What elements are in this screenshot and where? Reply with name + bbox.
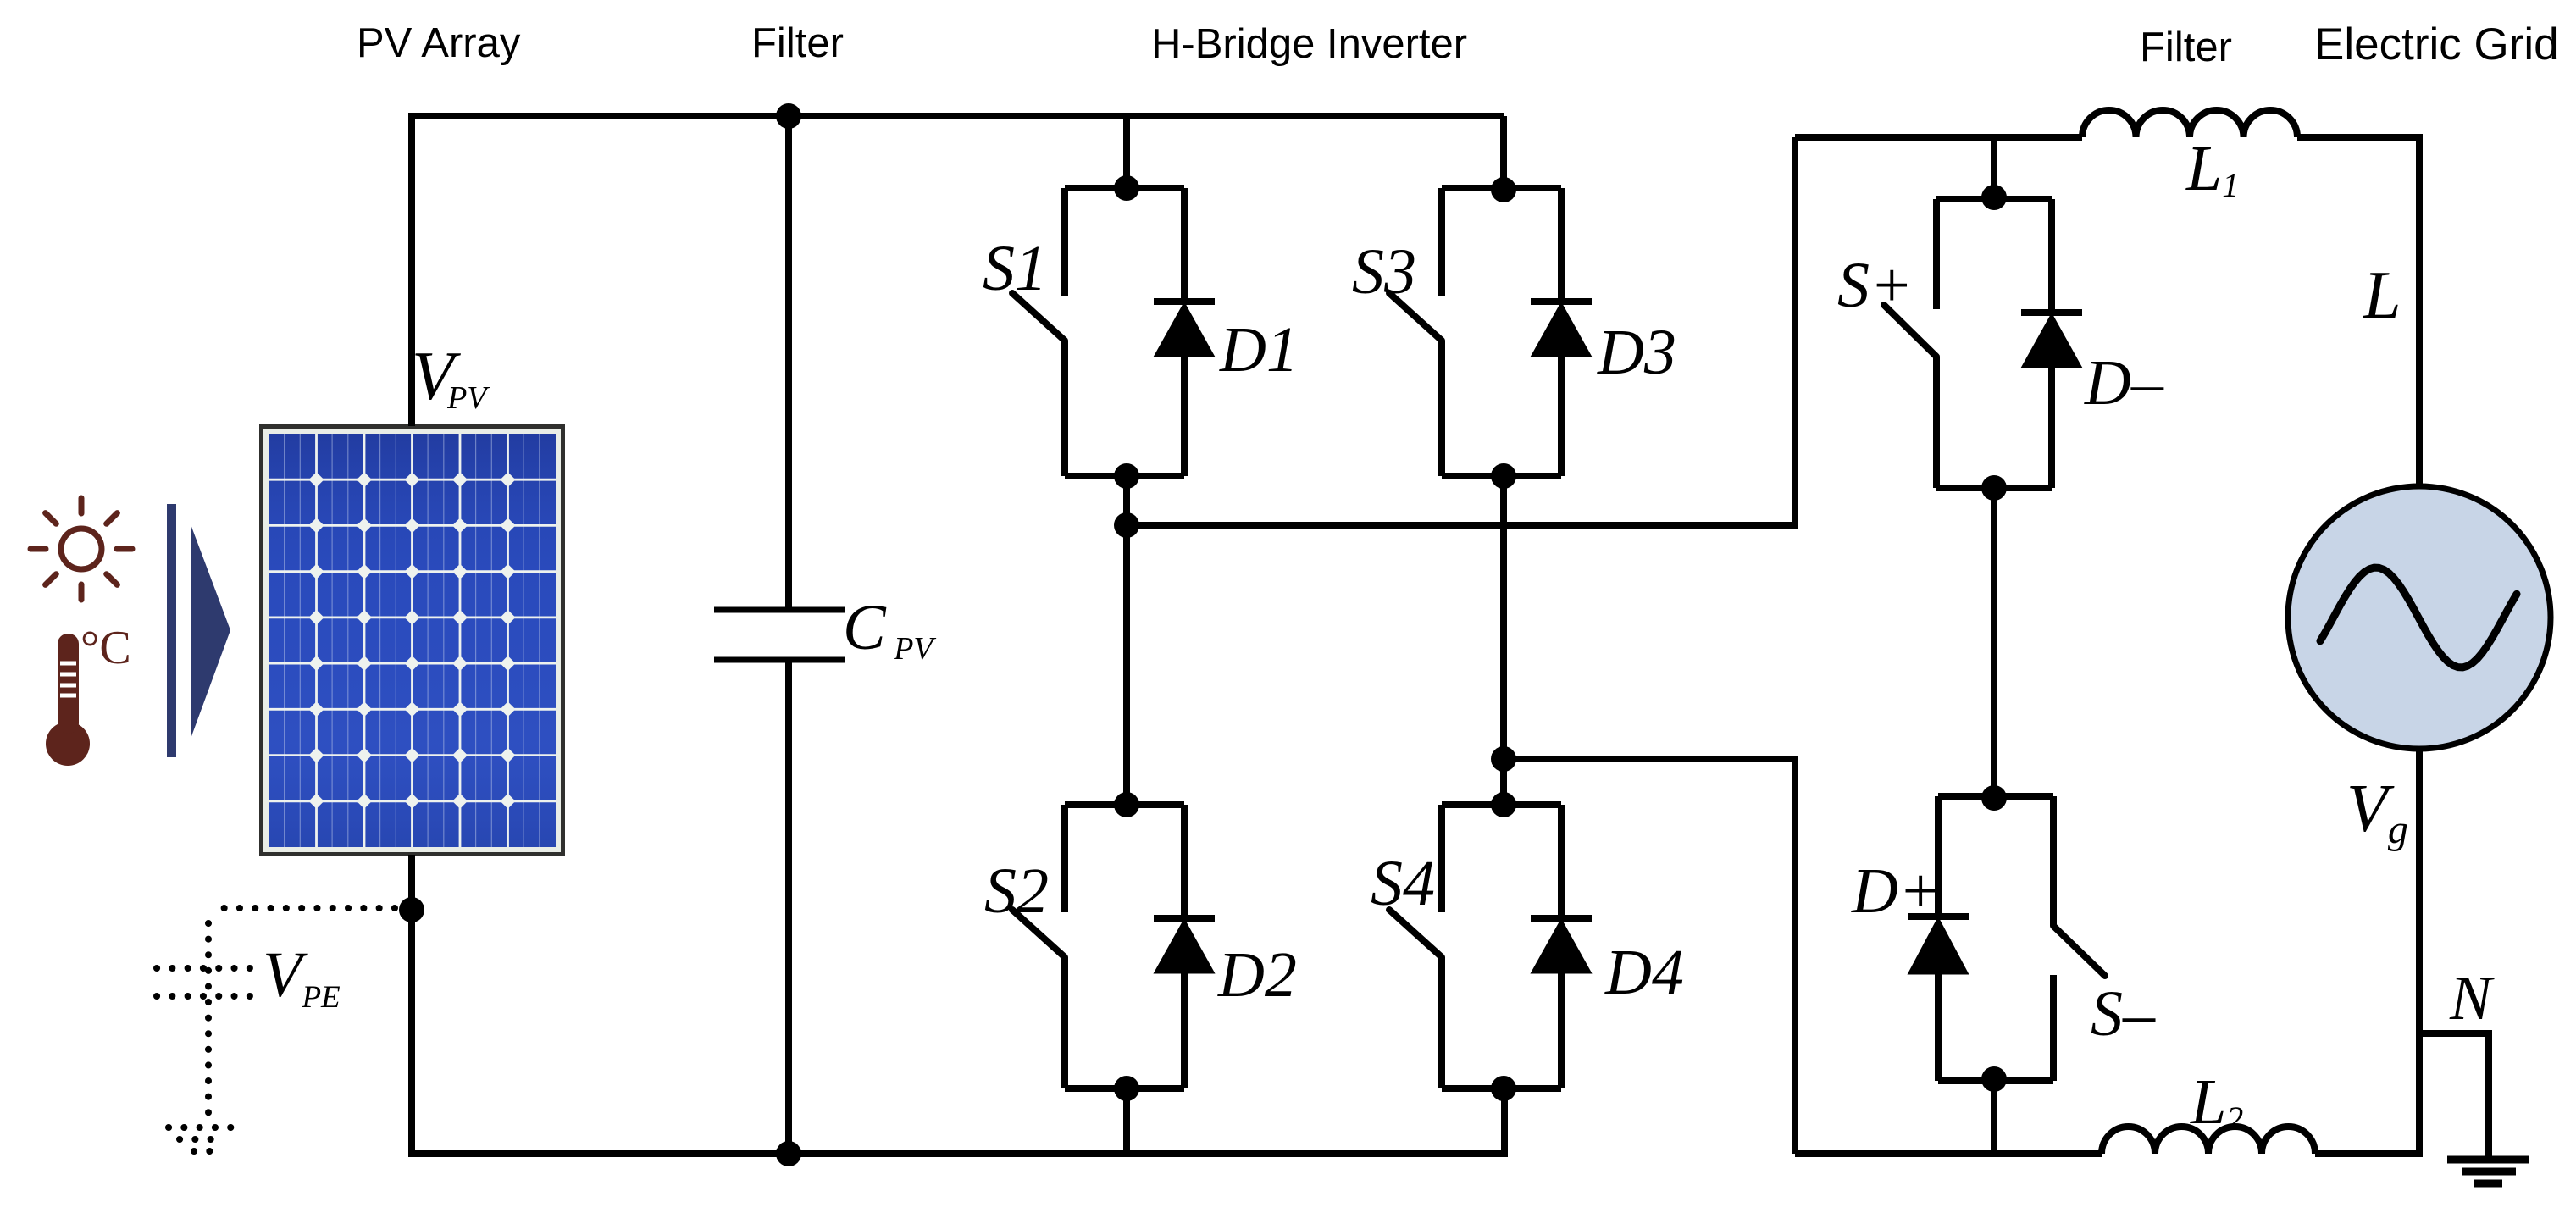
junction: S+ cell bottom — [1981, 475, 2007, 501]
wire: right bottom bus to L2 — [1795, 1150, 2102, 1157]
svg-text:D3: D3 — [1597, 317, 1676, 388]
capacitor C_PV top lead — [785, 116, 792, 607]
irradiance arrow head — [191, 524, 230, 739]
diode D- anode lead — [2048, 365, 2055, 488]
svg-text:D4: D4 — [1604, 937, 1684, 1008]
diode D- cathode lead — [2048, 199, 2055, 313]
diode D3 cathode lead — [1558, 188, 1565, 302]
wire: PV negative lead and bottom DC bus — [412, 855, 1504, 1154]
capacitor C_PV bottom plate — [714, 657, 845, 663]
junction at filter capacitor bottom — [776, 1141, 801, 1166]
junction: S+ cell top — [1981, 185, 2007, 210]
svg-text:L: L — [2363, 258, 2401, 333]
junction: D+ cell top — [1981, 785, 2007, 811]
switch S2 upper contact — [1061, 805, 1068, 912]
svg-text:Filter: Filter — [2140, 25, 2232, 70]
switch S1 blade — [1012, 293, 1065, 341]
junction: leg1 output node — [1114, 512, 1139, 538]
diode D+ cathode bar — [1908, 913, 1969, 920]
switch S+ lower contact — [1933, 357, 1940, 488]
switch S+ blade — [1884, 305, 1936, 357]
svg-text:D+: D+ — [1851, 856, 1942, 927]
switch S1 upper contact — [1061, 188, 1068, 296]
junction: S4 cell top — [1491, 792, 1516, 817]
diode D1 cathode lead — [1181, 188, 1188, 302]
svg-text:D2: D2 — [1217, 939, 1297, 1011]
diode D1 triangle — [1155, 304, 1213, 356]
junction: S1 cell top — [1114, 175, 1139, 201]
switch S- lower contact — [2050, 975, 2057, 1081]
wire: leg1 midpoint vertical — [1123, 476, 1130, 805]
wire: leg2 stem from top bus — [1500, 116, 1507, 188]
AC source sine wave — [2320, 568, 2517, 667]
junction: leg2 output node — [1491, 746, 1516, 772]
wire: leg1 stem from top bus — [1123, 116, 1130, 188]
junction: PV negative / parasitic node — [399, 897, 424, 922]
diode D2 anode lead — [1181, 971, 1188, 1088]
inductor L1 — [2082, 110, 2297, 137]
junction: S3 cell top — [1491, 177, 1516, 202]
diode D3 triangle — [1532, 304, 1590, 356]
wire: neutral branch N — [2419, 1033, 2489, 1158]
svg-text:Filter: Filter — [751, 20, 844, 66]
inductor L2 — [2102, 1127, 2315, 1154]
S+ cell outline bottom — [1936, 485, 2052, 491]
junction: S3 cell bottom — [1491, 463, 1516, 489]
wire: leg2 midpoint vertical — [1500, 476, 1507, 805]
diode D1 cathode bar — [1154, 298, 1215, 305]
svg-text:S+: S+ — [1837, 250, 1913, 321]
diode D2 triangle — [1155, 921, 1213, 972]
diode D1 anode lead — [1181, 354, 1188, 476]
diode D4 anode lead — [1558, 971, 1565, 1088]
junction at filter capacitor top — [776, 103, 801, 129]
junction: S2 cell bottom — [1114, 1076, 1139, 1101]
svg-text:PV Array: PV Array — [357, 20, 521, 66]
junction: S1 cell bottom — [1114, 463, 1139, 489]
junction: S2 cell top — [1114, 792, 1139, 817]
wire: S+ bottom to D+ cell top — [1991, 488, 1997, 796]
svg-text:S4: S4 — [1371, 848, 1435, 919]
dotted wire: horizontal to V_PE — [209, 905, 395, 911]
earth ground symbol (dotted) — [169, 1124, 231, 1131]
S1 cell outline — [1065, 185, 1184, 191]
switch S+ upper contact — [1933, 199, 1940, 309]
diode D2 cathode lead — [1181, 805, 1188, 918]
ground symbol — [2447, 1156, 2529, 1164]
irradiance arrow bar — [167, 504, 176, 757]
switch S2 lower contact — [1061, 957, 1068, 1088]
junction: D+ cell bottom — [1981, 1066, 2007, 1092]
diode D3 cathode bar — [1531, 298, 1592, 305]
switch S- blade — [2053, 926, 2105, 976]
svg-text:H-Bridge Inverter: H-Bridge Inverter — [1151, 21, 1467, 67]
diode D2 cathode bar — [1154, 915, 1215, 922]
switch S3 blade — [1389, 293, 1442, 341]
wire: right top rail to L1 — [1795, 134, 2082, 141]
diode D4 cathode lead — [1558, 805, 1565, 918]
diode D- triangle — [2023, 315, 2080, 367]
wire: PV positive lead and top DC bus — [412, 116, 1504, 426]
svg-text:S2: S2 — [984, 856, 1049, 927]
S+ cell outline top — [1936, 196, 2052, 202]
S3 cell outline — [1442, 185, 1561, 191]
diode D4 triangle — [1532, 921, 1590, 972]
S2 cell outline — [1065, 801, 1184, 808]
diode D+ anode lead — [1935, 972, 1942, 1081]
diode D4 cathode bar — [1531, 915, 1592, 922]
junction: S4 cell bottom — [1491, 1076, 1516, 1101]
svg-text:D1: D1 — [1219, 314, 1299, 385]
wire: leg1 output to right section — [1127, 137, 1795, 525]
wire: leg2 output to right section — [1504, 759, 1795, 1154]
wire: D+ cell bottom to bottom bus — [1991, 1081, 1997, 1154]
svg-text:D–: D– — [2084, 347, 2164, 418]
diode D+ cathode lead — [1935, 796, 1942, 917]
capacitor C_PV top plate — [714, 607, 845, 613]
diode D3 anode lead — [1558, 354, 1565, 476]
switch S3 upper contact — [1438, 188, 1445, 296]
D+ cell outline top — [1938, 793, 2053, 800]
parasitic capacitance upper plate (dotted) — [157, 965, 251, 972]
wire: L1 to grid column — [2297, 137, 2419, 487]
diode D+ triangle — [1909, 919, 1967, 973]
capacitor C_PV bottom lead — [785, 662, 792, 1154]
switch S3 lower contact — [1438, 341, 1445, 476]
svg-text:N: N — [2449, 964, 2495, 1033]
switch S4 lower contact — [1438, 957, 1445, 1088]
sun icon (solar irradiance) — [30, 498, 132, 600]
diode D- cathode bar — [2021, 309, 2082, 316]
dotted wire: vertical V_PE branch — [205, 923, 212, 1122]
wire: S+ cell stem — [1991, 137, 1997, 199]
svg-text:S–: S– — [2091, 978, 2156, 1050]
wire: S2 cell bottom to bottom bus — [1123, 1088, 1130, 1154]
switch S1 lower contact — [1061, 341, 1068, 476]
AC grid source Vg circle — [2288, 486, 2551, 749]
D+ cell outline bottom — [1938, 1077, 2053, 1084]
svg-text:S1: S1 — [983, 233, 1047, 304]
S4 cell outline — [1442, 801, 1561, 808]
switch S2 blade — [1012, 910, 1065, 957]
svg-text:°C: °C — [80, 622, 131, 674]
thermometer icon (ambient temperature) — [46, 634, 90, 766]
switch S4 upper contact — [1438, 805, 1445, 912]
parasitic capacitance lower plate (dotted) — [157, 993, 251, 1000]
PV array panel — [259, 424, 565, 856]
switch S4 blade — [1389, 910, 1442, 957]
switch S- upper contact — [2050, 796, 2057, 926]
svg-text:Electric Grid: Electric Grid — [2314, 19, 2559, 69]
wire: L2 to grid column — [2315, 748, 2419, 1154]
svg-text:S3: S3 — [1352, 236, 1416, 307]
